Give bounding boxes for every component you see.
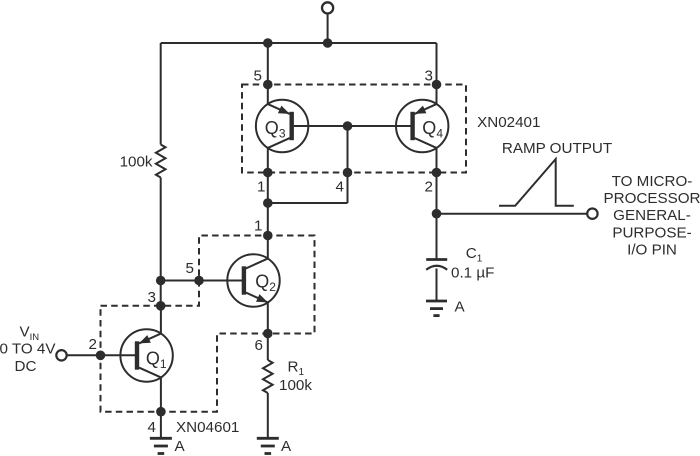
label RAMP OUTPUT [502,140,612,157]
wire (base junction down, pin 4) [347,126,349,203]
label DC [15,358,37,375]
svg-text:I/O PIN: I/O PIN [627,242,677,259]
terminal (VIN input, open circle) [56,350,66,360]
node pin 2 (dashed box crossing) [432,168,442,178]
svg-text:4: 4 [148,419,156,436]
pin 2 label (Q1 base) [89,336,97,353]
svg-text:100k: 100k [279,377,312,394]
resistor 100k (left bias) [156,145,166,178]
wire (top rail) [161,42,437,44]
svg-text:A: A [281,438,292,455]
label 0 TO 4V [0,341,56,358]
package outline XN04601 (dashed staircase box around Q1,Q2) [101,236,315,412]
svg-text:XN02401: XN02401 [477,114,540,131]
svg-text:GENERAL-: GENERAL- [613,207,691,224]
wire (Q4 collector down to output node, pin 2) [436,148,438,214]
svg-text:6: 6 [255,337,263,354]
label 100k (R1 value) [279,377,312,394]
wire (Q2 base to left rail, pin 5) [161,280,244,282]
pin 1 label (Q2 collector) [254,218,262,235]
pin 4 label [336,179,344,196]
wire (Q3 base to Q4 base) [294,125,413,127]
svg-text:A: A [175,438,186,455]
svg-text:1: 1 [254,218,262,235]
svg-text:3: 3 [148,289,156,306]
svg-text:PURPOSE-: PURPOSE- [612,224,691,241]
label 100k (left resistor value) [120,154,153,171]
transistor Q1 (pnp) [120,329,172,381]
node pin 1 (Q2 box crossing) [263,231,273,241]
wire (pin1 node down to Q2 collector, pin 1) [267,203,269,259]
pin 5 label (Q3 emitter) [254,68,262,85]
wire (VIN terminal to Q1 base, pin 2) [67,354,135,356]
wire (Q1 emitter up to pin 3) [160,307,162,334]
label A (C1 ground) [455,299,466,316]
ground A (below Q1) [150,438,172,453]
label R1 [288,358,305,378]
wire (supply terminal to top rail) [327,13,329,43]
wire (Q1 collector down to pin 4) [160,377,162,438]
terminal (supply input, open circle) [322,2,333,13]
wire (resistor 100k to node A5/A3) [160,178,162,308]
capacitor C1 [426,260,447,270]
wire (output node to C1) [436,214,438,260]
svg-text:RAMP OUTPUT: RAMP OUTPUT [502,140,612,157]
transistor Q2 (npn) [227,254,279,306]
label A (Q1 ground) [175,438,186,455]
wire (rail down to resistor 100k) [160,43,162,145]
svg-text:0.1 µF: 0.1 µF [451,264,494,281]
transistor Q3 (pnp) [256,100,308,152]
svg-text:5: 5 [186,260,194,277]
ramp waveform icon [499,159,574,206]
svg-text:2: 2 [425,179,433,196]
label TO MICROPROCESSOR GENERAL-PURPOSE I/O PIN [603,173,700,259]
svg-text:PROCESSOR: PROCESSOR [603,190,700,207]
svg-text:DC: DC [15,358,37,375]
node pin 1 (dashed box crossing) [263,168,273,178]
wire (output node to output terminal) [437,213,588,215]
wire (Q2 emitter down to R1, pin 6) [267,302,269,360]
label A (R1 ground) [281,438,292,455]
node pin 3 (dashed box crossing) [432,80,442,90]
pin 1 label (Q3 collector) [257,179,265,196]
label XN02401 [477,114,540,131]
wire (rail to Q3 emitter, pin 5) [267,43,269,104]
label XN04601 [176,419,239,436]
svg-text:TO MICRO-: TO MICRO- [612,173,693,190]
node pin 2 (Q1 box crossing) [96,351,106,361]
node (base junction of Q3/Q4) [343,121,353,131]
node (Q2 base / left rail junction) [156,276,166,286]
pin 2 label (Q4 collector) [425,179,433,196]
svg-text:A: A [455,299,466,316]
node (pin 4 / pin 1 junction) [263,198,273,208]
wire (Q3 collector down to pin 1) [267,148,269,203]
resistor R1 100k [263,360,273,393]
svg-text:3: 3 [425,68,433,85]
node (rail / supply terminal) [323,38,333,48]
svg-text:5: 5 [254,68,262,85]
wire (R1 to ground A) [267,393,269,438]
node pin 5 (Q2 box crossing) [194,276,204,286]
pin 3 label (Q4 emitter) [425,68,433,85]
label 0.1 uF [451,264,494,281]
pin 6 label (Q2 emitter) [255,337,263,354]
wire (C1 to ground A) [436,269,438,302]
node pin 4 (dashed box crossing) [343,168,353,178]
pin 5 label (Q2 base) [186,260,194,277]
node pin 6 (Q2 box crossing) [263,329,273,339]
wire (pin 4 to Q3 collector node) [268,202,348,204]
node (output junction) [432,209,442,219]
package outline XN02401 (dashed box around Q3,Q4) [242,85,466,173]
label C1 [466,245,483,265]
node pin 4 (Q1 box crossing) [156,407,166,417]
wire (rail to Q4 emitter, pin 3) [436,43,438,104]
pin 3 label (Q1 emitter) [148,289,156,306]
node pin 5 (dashed box crossing) [263,80,273,90]
ground A (below C1) [426,301,447,316]
svg-text:XN04601: XN04601 [176,419,239,436]
svg-text:0 TO 4V: 0 TO 4V [0,341,56,358]
transistor Q4 (pnp) [396,100,448,152]
svg-text:100k: 100k [120,154,153,171]
label VIN [20,324,40,344]
pin 4 label (Q1 collector) [148,419,156,436]
svg-text:2: 2 [89,336,97,353]
svg-text:4: 4 [336,179,344,196]
terminal (ramp output, open circle) [587,209,597,219]
node (rail / Q3 emitter branch) [263,38,273,48]
ground A (below R1) [257,438,279,453]
node pin 3 (Q1 box crossing) [156,301,166,311]
svg-text:1: 1 [257,179,265,196]
